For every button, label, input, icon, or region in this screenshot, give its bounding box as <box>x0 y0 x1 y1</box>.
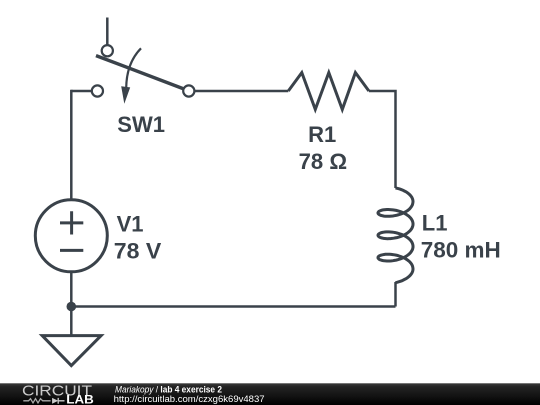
footer bar background <box>0 383 540 405</box>
wire: junction to ground symbol <box>70 307 73 336</box>
voltage source V1 plus sign <box>60 211 83 234</box>
switch SW1 actuation arrowhead <box>121 86 130 104</box>
footer logo diode <box>52 398 58 404</box>
switch SW1 blade <box>96 56 183 89</box>
junction node dot <box>67 302 77 312</box>
footer logo resistor zigzag <box>23 399 50 403</box>
svg-text:R1: R1 <box>308 122 336 147</box>
svg-text:L1: L1 <box>422 211 448 236</box>
wire: inductor L1 bottom to bottom-right corner <box>394 282 397 307</box>
wire: bottom horizontal from right corner to junction node <box>71 305 395 308</box>
svg-text:LAB: LAB <box>66 394 94 405</box>
switch SW1 left throw terminal <box>92 85 103 96</box>
ground symbol <box>42 336 101 366</box>
svg-text:78 V: 78 V <box>114 239 162 264</box>
wire: V1 bottom to junction node <box>70 272 73 307</box>
svg-text:SW1: SW1 <box>117 112 165 137</box>
svg-text:http://circuitlab.com/czxg6k69: http://circuitlab.com/czxg6k69v4837 <box>114 394 265 405</box>
svg-text:78 Ω: 78 Ω <box>299 149 348 174</box>
voltage source V1 minus sign <box>60 249 83 252</box>
svg-text:V1: V1 <box>117 212 144 237</box>
inductor L1 coil <box>378 188 413 283</box>
resistor R1 <box>288 73 369 110</box>
wire: SW1 common terminal to resistor R1 <box>195 90 288 93</box>
wire: resistor R1 to top-right corner down to inductor L1 <box>369 91 396 188</box>
switch SW1 top throw terminal <box>102 45 113 56</box>
switch SW1 actuation arrow arc <box>126 48 141 88</box>
wire: top-left horizontal from left node to SW1 left terminal <box>71 90 91 93</box>
svg-text:780 mH: 780 mH <box>421 237 501 262</box>
wire: left vertical down to V1 top <box>70 90 73 200</box>
voltage source V1 body <box>35 200 107 272</box>
wire: stub above switch top terminal <box>106 18 109 45</box>
switch SW1 common terminal <box>183 85 194 96</box>
